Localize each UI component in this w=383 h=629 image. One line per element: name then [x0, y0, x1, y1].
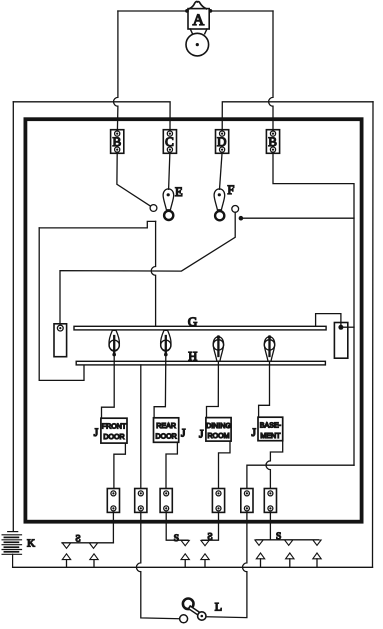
- S1 anvil stem left: [66, 560, 68, 568]
- switch L pivot: [183, 599, 194, 610]
- S3 contact triangle down 2: [285, 540, 293, 545]
- wire: stem D to pendant F: [220, 152, 223, 189]
- contact circle right of F: [232, 206, 239, 213]
- fuse B1: [111, 130, 124, 154]
- wire: bottom bus: [13, 566, 373, 568]
- wire: J3 out to fuse 4: [219, 441, 231, 488]
- wire: drop 1 to push J1: [102, 355, 115, 419]
- right coil block: [334, 323, 347, 359]
- push button J4 basement: [258, 417, 283, 441]
- bus bar G: [74, 326, 326, 330]
- fuse 6: [264, 489, 276, 513]
- wire: node dot to right vertical: [243, 217, 354, 219]
- wire: bottom horizontal to fuse 5: [247, 465, 354, 488]
- pendant push F: [214, 189, 225, 220]
- wire: drop 3 to push J3: [207, 361, 219, 417]
- wire: hook wire upper: [39, 221, 155, 228]
- S3 anvil stem 2: [289, 559, 291, 568]
- fuse D: [216, 130, 229, 154]
- wire: fuse 1 to S1 bar: [112, 512, 114, 542]
- svg-text:DOOR: DOOR: [155, 432, 176, 440]
- S3 anvil triangle up 2: [286, 553, 294, 559]
- push button J2 rear door: [154, 418, 179, 443]
- annunciator drop 4 (dropped): [264, 335, 274, 361]
- S3 anvil stem 1: [260, 559, 262, 568]
- svg-text:S: S: [75, 535, 80, 545]
- switch bar S1: [62, 542, 113, 544]
- fuse 3: [160, 489, 172, 513]
- left coil block: [54, 324, 67, 357]
- wire: fuse 4 to S2 right bar: [202, 512, 219, 540]
- svg-text:J: J: [94, 427, 99, 439]
- wire: fuse 2 down to switch L with hop at bus: [136, 512, 179, 618]
- fuse C: [163, 130, 176, 154]
- wire: drop 2 to push J2: [154, 355, 166, 418]
- wire: fuse 3 to S2 left bar: [166, 512, 188, 540]
- svg-text:J: J: [251, 427, 256, 439]
- bus bar H: [76, 361, 325, 365]
- svg-text:E: E: [175, 185, 183, 199]
- svg-text:C: C: [165, 134, 174, 149]
- wire: bell right vertical with hop: [269, 11, 273, 131]
- svg-text:J: J: [181, 428, 186, 440]
- wire: bracket G bar to right block: [316, 314, 341, 327]
- wire: outer left vertical to battery: [12, 102, 14, 532]
- wire: B2 down, right, long vertical: [273, 152, 354, 465]
- wire: bell left vertical with hop: [114, 11, 118, 131]
- contact circle left: [150, 205, 157, 212]
- svg-text:B: B: [112, 134, 121, 149]
- battery K: [2, 532, 21, 568]
- switch L blade: [191, 608, 200, 614]
- wire: hanging vertical to G bar with hop: [151, 221, 155, 326]
- node dot right block: [338, 325, 343, 330]
- S3 contact triangle down 3: [313, 540, 321, 545]
- svg-text:ROOM: ROOM: [207, 432, 229, 440]
- wire: top-right horizontal, D to outer right: [222, 102, 373, 131]
- S1 anvil triangle up left: [62, 554, 70, 560]
- svg-text:REAR: REAR: [156, 422, 176, 430]
- wire: J1 out to fuse 1: [114, 443, 126, 488]
- wire: fuse 5 down to switch L with hop at bus: [207, 512, 247, 617]
- wire: fuse 6 to S3 bar: [269, 512, 271, 539]
- switch L contact circle: [180, 615, 188, 623]
- S3 anvil stem 3: [316, 559, 318, 568]
- switch bar S3: [256, 539, 319, 541]
- S1 anvil triangle up right: [90, 554, 98, 560]
- wire: top-left horizontal, battery to C: [13, 102, 170, 131]
- S2 contact triangle down left: [181, 540, 189, 545]
- svg-text:K: K: [27, 538, 35, 550]
- wire: right block dot to long vertical: [343, 326, 354, 328]
- fuse 2: [135, 489, 147, 513]
- wire: bell left horizontal: [118, 10, 187, 12]
- svg-text:F: F: [227, 183, 234, 197]
- fuse 1: [107, 489, 119, 513]
- annunciator drop 1: [109, 330, 119, 356]
- svg-text:FRONT: FRONT: [102, 423, 127, 431]
- svg-text:A: A: [193, 12, 205, 29]
- S3 anvil triangle up 1: [256, 553, 264, 559]
- svg-text:S: S: [174, 534, 179, 544]
- node dot near F: [239, 216, 244, 221]
- fuse B2: [266, 130, 279, 154]
- S2 anvil stem left: [184, 560, 186, 568]
- S2 anvil triangle up left: [181, 554, 189, 560]
- svg-text:MENT: MENT: [260, 432, 281, 440]
- S1 anvil stem right: [93, 560, 95, 568]
- wire: drop 4 to push J4: [259, 361, 270, 417]
- wire: left loop to H bar: [39, 228, 84, 381]
- annunciator case (thick box): [25, 119, 361, 522]
- bell A body: [185, 2, 212, 34]
- S2 contact triangle down right: [201, 540, 209, 545]
- switch L handle circle: [198, 612, 206, 620]
- S3 contact triangle down 1: [255, 540, 263, 545]
- S2 anvil triangle up right: [201, 554, 209, 560]
- wire: F contact down, diagonal, left horizontal, down to left coil: [60, 212, 235, 323]
- svg-text:DINING: DINING: [206, 422, 231, 430]
- annunciator drop 2: [161, 330, 171, 356]
- wire: bell right horizontal: [211, 10, 273, 12]
- svg-text:S: S: [276, 532, 281, 542]
- fuse 4: [212, 489, 224, 513]
- svg-text:L: L: [215, 600, 222, 614]
- svg-text:J: J: [199, 428, 204, 440]
- wire: J2 out to fuse 3: [166, 442, 177, 488]
- pendant push E: [163, 189, 174, 220]
- wire: H bar to fuse 2: [140, 365, 142, 489]
- svg-text:S: S: [207, 533, 212, 543]
- wire: outer right vertical: [372, 102, 375, 568]
- wire: J4 out to fuse 6 with hop: [266, 441, 283, 489]
- S1 contact triangle down right: [89, 543, 97, 548]
- svg-text:DOOR: DOOR: [103, 433, 124, 441]
- S1 contact triangle down left: [62, 543, 70, 548]
- push button J3 dining room: [206, 418, 231, 442]
- svg-text:H: H: [188, 349, 197, 363]
- bell A gong: [186, 33, 209, 56]
- annunciator drop 3 (dropped): [213, 335, 223, 361]
- svg-text:B: B: [268, 134, 277, 149]
- fuse 5: [241, 489, 253, 513]
- S2 anvil stem right: [204, 560, 206, 568]
- wire: switch blade from B1: [117, 152, 151, 206]
- svg-text:BASE-: BASE-: [260, 422, 282, 430]
- svg-text:D: D: [217, 134, 226, 149]
- wire: stem C to pendant E: [169, 152, 170, 189]
- push button J1 front door: [101, 418, 127, 443]
- S3 anvil triangle up 3: [313, 553, 321, 559]
- svg-text:G: G: [188, 314, 197, 329]
